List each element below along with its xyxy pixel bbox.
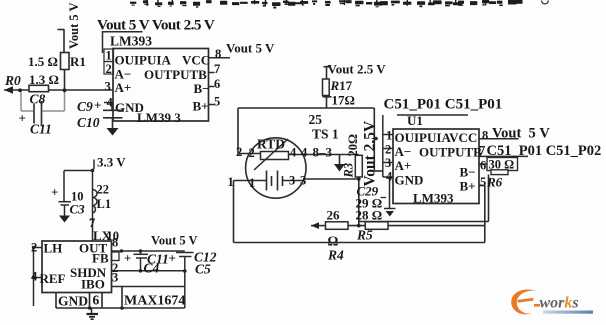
svg-text:7: 7 [214, 62, 220, 76]
svg-text:U1: U1 [407, 113, 423, 128]
svg-text:MAX1674: MAX1674 [124, 294, 185, 309]
svg-text:R4: R4 [327, 248, 344, 263]
svg-text:2: 2 [385, 143, 391, 157]
svg-text:Vout 5 V: Vout 5 V [67, 2, 81, 49]
svg-text:4: 4 [290, 146, 297, 160]
svg-text:C9: C9 [77, 99, 93, 114]
svg-text:+: + [124, 251, 131, 266]
svg-text:20Ω: 20Ω [346, 134, 360, 157]
svg-text:B+: B+ [460, 179, 476, 194]
svg-text:3: 3 [112, 271, 118, 285]
svg-text:6: 6 [480, 159, 486, 173]
svg-text:LM393: LM393 [110, 34, 152, 49]
svg-text:7: 7 [479, 144, 485, 158]
svg-text:Vout 5 V: Vout 5 V [151, 234, 198, 248]
svg-text:1: 1 [228, 175, 234, 189]
svg-text:L1: L1 [97, 197, 112, 211]
svg-text:Vout 2.5V: Vout 2.5V [362, 120, 379, 187]
svg-text:22: 22 [97, 183, 110, 197]
svg-text:3.3 V: 3.3 V [97, 155, 126, 170]
svg-text:1: 1 [386, 129, 392, 143]
svg-text:LM393: LM393 [413, 191, 454, 206]
svg-text:+: + [94, 98, 101, 113]
svg-text:R6: R6 [486, 175, 503, 190]
svg-text:3: 3 [385, 156, 391, 170]
svg-text:3: 3 [105, 80, 111, 94]
svg-text:C8: C8 [30, 92, 46, 107]
svg-text:+: + [169, 251, 176, 266]
svg-text:C51_P01 C51_P01: C51_P01 C51_P01 [384, 97, 503, 113]
svg-text:R17: R17 [330, 78, 353, 93]
svg-text:1: 1 [106, 49, 112, 63]
svg-text:FB: FB [92, 251, 109, 266]
svg-text:8: 8 [215, 47, 221, 61]
svg-text:Vout 2.5 V: Vout 2.5 V [328, 62, 387, 77]
svg-text:2: 2 [31, 241, 37, 255]
svg-text:17Ω: 17Ω [332, 93, 355, 108]
svg-text:R0: R0 [4, 73, 21, 88]
svg-text:Vout 5 V: Vout 5 V [226, 41, 275, 56]
svg-text:4: 4 [386, 170, 393, 184]
svg-text:2: 2 [106, 62, 112, 76]
svg-text:6: 6 [93, 293, 100, 308]
svg-text:1: 1 [249, 176, 255, 190]
svg-text:1.3 Ω: 1.3 Ω [29, 72, 59, 87]
svg-text:C11: C11 [30, 122, 52, 137]
svg-text:26: 26 [327, 208, 341, 223]
svg-text:LM39 3: LM39 3 [137, 110, 181, 125]
svg-text:LH: LH [44, 241, 63, 256]
svg-text:C10: C10 [77, 115, 100, 130]
svg-text:+: + [19, 111, 26, 126]
svg-text:IBO: IBO [81, 277, 105, 292]
svg-text:1.5 Ω: 1.5 Ω [28, 54, 58, 69]
svg-text:RTD: RTD [257, 137, 285, 152]
svg-text:+: + [51, 185, 58, 200]
svg-text:TS 1: TS 1 [312, 127, 339, 142]
svg-text:5: 5 [214, 95, 220, 109]
svg-text:GND: GND [395, 173, 424, 188]
svg-text:GND: GND [58, 294, 88, 309]
svg-text:28 Ω: 28 Ω [356, 208, 383, 223]
svg-text:C3: C3 [70, 202, 86, 217]
svg-text:25: 25 [309, 112, 323, 127]
svg-text:A+: A+ [395, 158, 412, 173]
svg-text:OUTPUTB: OUTPUTB [144, 67, 207, 82]
svg-text:6: 6 [214, 77, 220, 91]
svg-text:C5: C5 [195, 262, 211, 277]
svg-text:Ω: Ω [328, 234, 339, 249]
svg-text:8–3: 8–3 [313, 145, 333, 160]
svg-text:A+: A+ [115, 80, 132, 95]
svg-text:B−: B− [460, 165, 476, 180]
svg-text:3: 3 [300, 174, 306, 188]
svg-text:4: 4 [301, 146, 308, 160]
svg-text:8: 8 [112, 236, 118, 250]
svg-text:works: works [540, 295, 579, 312]
svg-text:R1: R1 [70, 54, 86, 69]
svg-text:8: 8 [482, 129, 488, 143]
svg-text:2: 2 [236, 145, 242, 159]
svg-text:2: 2 [249, 146, 255, 160]
svg-text:R5: R5 [356, 228, 373, 243]
svg-text:5: 5 [480, 175, 486, 189]
svg-text:B−: B− [194, 81, 210, 96]
svg-text:B+: B+ [193, 99, 209, 114]
svg-text:C4: C4 [144, 261, 160, 276]
svg-text:4: 4 [31, 270, 38, 284]
svg-text:A−: A− [395, 144, 412, 159]
svg-text:3: 3 [289, 174, 295, 188]
svg-text:REF: REF [40, 271, 66, 286]
svg-text:OUIPUIAVCC: OUIPUIAVCC [395, 130, 478, 145]
svg-text:OUIPUIA: OUIPUIA [115, 53, 172, 68]
svg-text:OUTPUTB: OUTPUTB [419, 145, 482, 160]
svg-text:R3: R3 [342, 163, 356, 179]
svg-text:Vout 5 V: Vout 5 V [492, 126, 550, 142]
svg-text:Vout 5 V Vout 2.5 V: Vout 5 V Vout 2.5 V [97, 17, 215, 34]
svg-text:VCC: VCC [182, 53, 210, 68]
